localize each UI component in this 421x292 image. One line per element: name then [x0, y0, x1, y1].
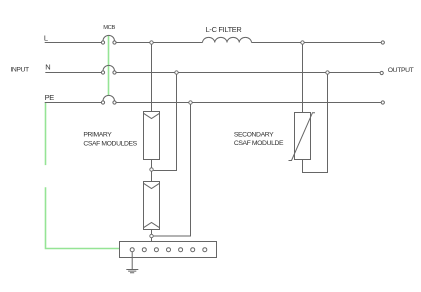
MCB pole N contact circles	[101, 71, 104, 74]
svg-text:PE: PE	[45, 93, 55, 102]
wire PE line left	[45, 102, 101, 104]
svg-text:OUTPUT: OUTPUT	[388, 67, 414, 74]
wire varistor bottom loop to N line	[303, 73, 328, 173]
svg-text:L-C FILTER: L-C FILTER	[206, 25, 242, 34]
terminal block hole 6	[191, 248, 195, 252]
wire module 2 to terminal block	[151, 230, 153, 242]
MCB pole N arc	[103, 65, 115, 70]
terminal block hole 5	[179, 248, 183, 252]
wire to ground	[131, 252, 133, 269]
junction on N at secondary tap	[326, 71, 329, 74]
terminal block hole 3	[154, 248, 158, 252]
wire N line right	[116, 72, 379, 74]
wire L line middle (MCB to inductor)	[116, 42, 202, 44]
junction on PE at primary tap	[189, 101, 192, 104]
wire PE tap to module bottom junction	[153, 103, 190, 237]
terminal block hole 7	[203, 248, 207, 252]
primary CSAF module 1 body	[144, 112, 160, 160]
MCB pole PE arc	[103, 95, 115, 101]
terminal block hole 1	[130, 248, 134, 252]
wire L line left	[45, 42, 101, 44]
junction on L at secondary tap	[301, 41, 304, 44]
wire PE line right	[116, 102, 381, 104]
svg-text:CSAF MODULDES: CSAF MODULDES	[83, 140, 137, 147]
ground symbol	[126, 270, 138, 273]
wire green PE-to-earth-bar segment 2	[46, 187, 120, 248]
output terminal L	[381, 41, 384, 44]
svg-text:MCB: MCB	[103, 25, 115, 31]
output terminal PE	[381, 101, 384, 104]
terminal block (earth bar) body	[120, 242, 217, 258]
junction at module 2 bottom	[150, 234, 153, 237]
primary CSAF module 2 bottom chevron	[144, 223, 160, 228]
terminal block hole 2	[142, 248, 146, 252]
svg-text:N: N	[45, 63, 50, 72]
inductor L1 of L-C filter	[203, 37, 252, 42]
primary CSAF module 1 chevron	[144, 113, 160, 118]
MCB pole L arc	[103, 35, 115, 41]
junction between primary modules	[150, 168, 153, 171]
secondary CSAF module varistor diagonal	[289, 113, 316, 161]
svg-text:PRIMARY: PRIMARY	[83, 131, 112, 138]
svg-text:SECONDARY: SECONDARY	[234, 132, 274, 139]
terminal block hole 4	[167, 248, 171, 252]
wire between primary modules	[151, 160, 153, 182]
junction on L at primary tap	[150, 41, 153, 44]
wire L tap down to secondary module	[302, 43, 304, 113]
junction on N at primary tap	[175, 71, 178, 74]
MCB pole L contact circles	[101, 41, 104, 44]
output terminal N	[380, 71, 383, 74]
wire N line left	[45, 72, 101, 74]
MCB pole PE contact circles	[101, 101, 104, 104]
secondary CSAF module (varistor) body	[295, 113, 311, 160]
primary CSAF module 2 top chevron	[144, 183, 160, 188]
wire L tap down to primary module	[151, 43, 153, 112]
wire green MCB linkage	[108, 36, 110, 96]
svg-text:CSAF MODULDE: CSAF MODULDE	[234, 140, 284, 147]
svg-text:INPUT: INPUT	[10, 67, 29, 74]
wire L line right	[252, 42, 381, 44]
wire green PE-to-earth-bar segment 1	[45, 103, 47, 165]
primary CSAF module 2 body	[144, 182, 160, 230]
svg-text:L: L	[44, 33, 48, 42]
wire N tap to inter-module junction	[153, 73, 176, 171]
